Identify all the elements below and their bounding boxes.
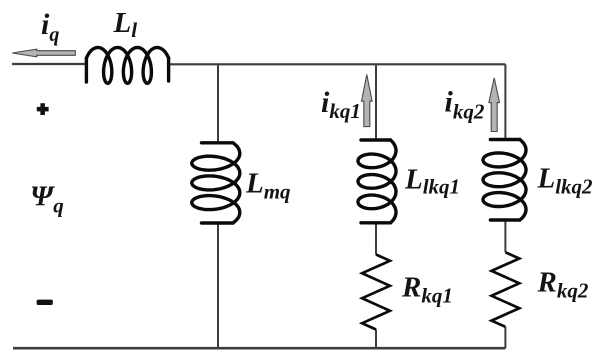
- label L_lkq2: [537, 162, 594, 198]
- inductor L_lkq2: [483, 140, 526, 221]
- inductor L_mq: [192, 143, 240, 223]
- wire branch kq1 vertical: [375, 64, 377, 348]
- plus terminal: [37, 103, 49, 115]
- svg-text:ikq1: ikq1: [321, 86, 361, 123]
- current arrow i_kq2: [489, 78, 500, 132]
- svg-text:Ψq: Ψq: [30, 181, 64, 218]
- inductor L_l: [86, 48, 168, 84]
- label Psi_q: [30, 181, 64, 218]
- bottom wire: [13, 347, 505, 350]
- label i_kq1: [321, 86, 361, 123]
- svg-text:Rkq1: Rkq1: [401, 271, 453, 307]
- wire branch kq2 vertical: [504, 64, 506, 348]
- svg-text:Rkq2: Rkq2: [537, 266, 589, 302]
- label L_mq: [245, 168, 291, 204]
- inductor L_lkq1: [358, 140, 396, 223]
- minus terminal: [37, 300, 53, 305]
- resistor R_kq1: [362, 255, 390, 330]
- svg-text:Llkq2: Llkq2: [537, 162, 594, 198]
- label i_q: [41, 8, 59, 46]
- svg-text:Lmq: Lmq: [245, 168, 291, 204]
- label L_l: [113, 7, 138, 42]
- label R_kq1: [401, 271, 453, 307]
- wire branch Lmq vertical: [217, 64, 219, 348]
- label L_lkq1: [404, 163, 460, 198]
- label R_kq2: [537, 266, 589, 302]
- svg-text:Ll: Ll: [113, 7, 138, 42]
- current arrow i_kq1: [362, 75, 373, 127]
- svg-text:Llkq1: Llkq1: [404, 163, 460, 198]
- top wire: [12, 63, 505, 66]
- svg-text:iq: iq: [41, 8, 59, 46]
- current arrow i_q: [12, 49, 75, 57]
- resistor R_kq2: [492, 252, 520, 326]
- label i_kq2: [445, 86, 485, 124]
- svg-text:ikq2: ikq2: [445, 86, 485, 124]
